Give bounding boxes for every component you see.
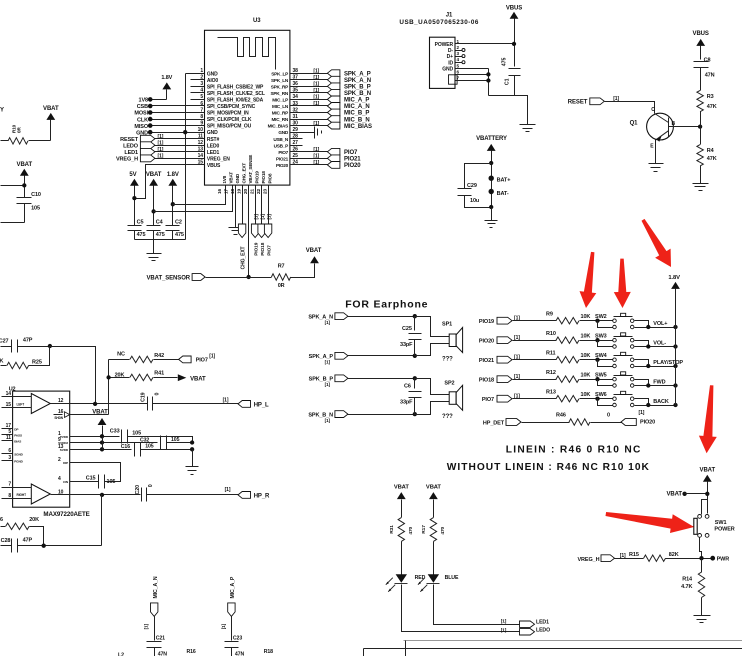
svg-text:GND: GND [207,130,218,136]
svg-text:D-: D- [448,48,454,54]
junction VBAT rail [151,209,155,213]
svg-text:VBUS: VBUS [693,31,709,37]
svg-text:PIO18: PIO18 [260,242,266,256]
svg-text:MIC_A_P: MIC_A_P [344,98,369,104]
svg-text:CHG_EXT: CHG_EXT [241,163,246,184]
capacitor C19 0 [140,392,160,410]
wire C27/R25 to HP_L node [50,347,96,404]
svg-text:10K: 10K [581,314,591,320]
svg-text:26: 26 [0,517,3,523]
switch SW2 [595,313,678,329]
svg-text:SP1: SP1 [442,322,452,328]
wire 1.8V rail to U3 pin16 [173,186,226,205]
wire feedback to HP_R node [101,495,103,546]
svg-text:???: ??? [442,356,453,362]
input ports RESET LED0 LED1 VREG_H [116,134,205,163]
svg-text:SHDN: SHDN [54,416,63,420]
svg-text:1.8V: 1.8V [668,275,680,281]
svg-text:SPK_LN: SPK_LN [271,78,289,83]
svg-text:R41: R41 [154,371,164,377]
port PIO20 button row [479,335,557,344]
svg-text:R12: R12 [546,370,556,376]
svg-text:R15: R15 [629,552,639,558]
svg-text:R7: R7 [278,263,285,269]
svg-text:SPI_CLK/PCM_CLK: SPI_CLK/PCM_CLK [207,117,252,123]
svg-text:1.8V: 1.8V [161,75,172,81]
port HP_L [153,398,270,409]
svg-text:10K: 10K [581,353,591,359]
svg-text:[1]: [1] [325,382,331,387]
svg-text:[1]: [1] [144,623,149,629]
junction GND pin10 [183,130,187,134]
svg-text:SPK_RP: SPK_RP [271,84,288,89]
transistor Q1 [630,107,676,150]
power VBAT arrow at PVDD [92,410,108,437]
svg-text:1V8: 1V8 [139,98,149,104]
svg-text:FWD: FWD [653,380,665,386]
port PIO7 at R42 [179,354,216,364]
svg-text:Q1: Q1 [630,120,639,126]
svg-text:MIC_RP: MIC_RP [272,111,288,116]
svg-text:MIC_LP: MIC_LP [272,98,288,103]
svg-text:RST#: RST# [207,137,220,143]
connector J1 USB_UA0507065230-06 [399,13,479,89]
svg-text:[1]: [1] [313,147,319,153]
svg-text:C21: C21 [156,636,165,642]
svg-text:C19: C19 [140,392,146,402]
svg-text:RIGHT: RIGHT [17,493,27,497]
svg-text:LEDO: LEDO [536,627,550,633]
svg-text:C6: C6 [404,384,411,390]
svg-text:PIO19: PIO19 [254,171,259,184]
power 1.8V arrow button bus [668,275,680,406]
svg-text:VBAT: VBAT [306,248,322,254]
svg-text:WITHOUT LINEIN : R46 NC R10 10: WITHOUT LINEIN : R46 NC R10 10K [447,462,650,473]
power VBAT arrow at R7 [291,248,322,278]
resistor R25 [0,347,49,369]
capacitor C5 475 [128,220,146,240]
wire U2 pin13 row [70,449,132,451]
power VBUS arrow at J1 [506,6,522,67]
svg-text:[1]: [1] [313,68,319,74]
port LED0 [501,627,550,635]
svg-text:PASS: PASS [14,433,22,437]
junction PVDD [100,434,104,438]
svg-text:PIO7: PIO7 [482,397,494,403]
switch SW5 [595,372,678,388]
port VREG_H [577,553,643,563]
svg-text:VOL-: VOL- [653,341,666,347]
svg-text:PIO7: PIO7 [278,150,288,155]
wire VBAT rail to U3 pin17 [154,186,233,212]
svg-text:105: 105 [132,430,141,436]
port HP_DET row [483,419,570,427]
svg-text:LED1: LED1 [124,150,138,156]
svg-text:CLK: CLK [137,117,148,123]
svg-text:VREG_H: VREG_H [577,557,599,563]
svg-text:C1: C1 [504,78,510,85]
port HP_R [147,487,271,499]
svg-text:470: 470 [440,526,446,534]
svg-text:SPK_B_N: SPK_B_N [344,91,371,97]
svg-text:MIC_RN: MIC_RN [272,117,289,122]
svg-text:0R: 0R [278,283,285,289]
svg-text:HP_R: HP_R [254,493,270,499]
svg-text:PIO21: PIO21 [479,358,494,364]
svg-text:ID: ID [448,60,453,66]
svg-text:20K: 20K [0,358,4,364]
resistor R9 10K [546,311,598,324]
junction R41/R42 [106,375,110,379]
port MIC_A_P [221,576,236,640]
wire GND net vertical [185,74,187,240]
port MIC_A_N [144,576,159,640]
U2 left pins [2,391,24,499]
svg-text:[1]: [1] [260,214,265,220]
LED red D? [386,574,426,592]
svg-text:VBAT: VBAT [146,172,162,178]
power 1.8V arrow near U3 [161,75,172,100]
svg-text:82K: 82K [669,552,679,558]
svg-text:LEFT: LEFT [17,402,25,406]
power VBAT arrow (top left) [43,106,59,141]
svg-text:???: ??? [442,414,453,420]
wire U2 pin16 SHDN [70,414,109,416]
svg-text:12: 12 [58,398,64,404]
svg-text:[1]: [1] [209,354,215,360]
resistor R42 NC to PIO7 [109,351,179,362]
svg-text:10: 10 [58,490,64,496]
resistor R15 82K [629,552,711,561]
svg-text:Y: Y [0,108,4,114]
capacitor C33 105 [110,428,193,443]
svg-text:R10: R10 [546,331,556,337]
svg-text:1: 1 [58,431,61,437]
junction base node [698,124,702,128]
svg-text:POWER: POWER [435,42,454,48]
annotation red arrow 1 [580,252,597,308]
svg-text:SPK_LP: SPK_LP [271,71,288,76]
U2 op-amp triangle RIGHT [13,484,70,504]
junction C27/R25 [48,344,52,348]
svg-text:33pF: 33pF [400,342,413,348]
svg-text:[1]: [1] [158,154,164,160]
svg-text:R46: R46 [556,412,566,418]
svg-text:SPI_MISO/PCM_OU: SPI_MISO/PCM_OU [207,124,252,130]
svg-text:VBAT: VBAT [92,410,108,416]
svg-text:MIC_A_N: MIC_A_N [344,104,370,110]
svg-text:SPK_B_P: SPK_B_P [344,85,371,91]
svg-text:47N: 47N [705,72,715,78]
svg-text:VBAT_SENSE: VBAT_SENSE [248,155,253,184]
svg-text:20K: 20K [29,517,39,523]
svg-text:13: 13 [58,444,64,450]
svg-text:[1]: [1] [501,618,507,624]
svg-text:C4: C4 [156,220,164,226]
svg-text:POWER: POWER [714,526,734,532]
svg-text:MISO: MISO [134,124,148,130]
U2 right internal labels [54,412,70,484]
svg-text:475: 475 [156,232,165,238]
svg-text:0: 0 [148,484,154,487]
resistor R12 10K [546,370,598,383]
wire U2 pin10 HP_R out [70,494,141,496]
capacitor C29 10u [458,161,494,208]
svg-text:16: 16 [217,188,223,194]
ground below R4 [693,183,709,185]
U3 left pins 1-15 with numbers and names [198,68,299,169]
port PIO7 button row [482,394,557,403]
node BAT- [489,189,509,197]
annotation red arrow 4 [699,385,717,453]
svg-text:[1]: [1] [158,140,164,146]
svg-text:105: 105 [145,443,154,449]
svg-text:C: C [651,107,655,113]
svg-text:C10: C10 [31,192,41,198]
svg-text:R31: R31 [389,525,395,534]
svg-text:SPK_A_P: SPK_A_P [344,71,371,77]
wire SHDN pull network [108,360,110,415]
svg-text:J1: J1 [446,13,453,19]
svg-text:[1]: [1] [221,623,226,629]
svg-text:SPK_RN: SPK_RN [270,91,288,96]
port VBAT_SENSOR [147,274,272,282]
svg-text:LINEIN : R46 0 R10 NC: LINEIN : R46 0 R10 NC [506,444,642,455]
svg-text:C2: C2 [175,220,182,226]
U2 op-amp triangle LEFT [13,394,70,414]
svg-text:[1]: [1] [158,147,164,153]
svg-text:SPI_CSB/PCM_SYNC: SPI_CSB/PCM_SYNC [207,104,256,110]
svg-text:U3: U3 [253,18,261,24]
svg-text:C25: C25 [402,326,412,332]
capacitor C28 47P [1,537,102,552]
svg-text:BAT+: BAT+ [497,178,511,184]
port PIO20 at R46 [621,410,655,426]
ground below C1 [515,96,536,132]
svg-text:10K: 10K [581,372,591,378]
svg-text:[1]: [1] [313,154,319,160]
node BAT+ [489,176,511,184]
U3 USB_N USB_P stubs [291,139,303,146]
capacitor C2 475 [166,220,184,240]
svg-text:R11: R11 [546,350,556,356]
capacitor C16 105 [121,443,193,457]
svg-text:PWR: PWR [717,557,730,563]
svg-text:C15: C15 [86,476,96,482]
resistor R3 47K [697,90,717,144]
U3 pin stubs rows 1-4 [186,74,205,93]
svg-text:SPK_A_N: SPK_A_N [344,78,371,84]
svg-text:47N: 47N [235,651,245,656]
svg-text:LED0: LED0 [207,143,220,149]
resistor R10 10K [546,331,598,344]
resistor R14 4.7K [681,559,705,616]
wire VBAT_SENSE pin20 down to sensor row [248,186,250,278]
wire U2 pin12 HP_L out [70,403,148,405]
port RESET to Q1 [568,96,655,113]
svg-text:VBAT: VBAT [394,484,410,490]
svg-text:[1]: [1] [313,82,319,88]
power 5V arrow [129,172,138,226]
svg-text:MIC_BIAS: MIC_BIAS [344,124,372,130]
svg-text:[1]: [1] [313,88,319,94]
svg-text:2: 2 [58,457,61,463]
svg-text:5V: 5V [129,172,136,178]
svg-text:47K: 47K [707,104,717,110]
svg-text:PIO20: PIO20 [479,339,494,345]
svg-text:R14: R14 [682,576,693,582]
svg-text:R16: R16 [187,649,196,655]
svg-text:CIN: CIN [63,480,69,484]
svg-text:R25: R25 [32,360,42,366]
svg-text:RESET: RESET [568,100,588,106]
svg-text:PIO21: PIO21 [276,156,289,161]
junction VBAT_SENSE [246,275,250,279]
svg-text:[1]: [1] [266,214,271,220]
resistor R11 10K [546,350,598,363]
svg-text:VBAT: VBAT [700,468,716,474]
U2 right pin numbers [58,398,64,495]
ports SPK_A_N SPK_A_P SPK_B_P SPK_B_N [308,313,417,423]
svg-text:R3: R3 [707,94,714,100]
svg-text:1.8V: 1.8V [167,172,179,178]
power VBAT arrow at R31 [394,484,410,517]
resistor R13 10K [546,389,598,402]
svg-text:R13: R13 [546,389,556,395]
svg-text:SPI_FLASH_IO0/E2_SDA: SPI_FLASH_IO0/E2_SDA [207,98,264,104]
U3 right SPK/MIC ports [291,68,372,129]
svg-text:MAX97220AETE: MAX97220AETE [43,511,89,518]
capacitor C20 0 [135,484,154,501]
svg-text:VBAT_SENSOR: VBAT_SENSOR [147,275,191,281]
svg-text:[1]: [1] [158,134,164,140]
svg-text:R4: R4 [707,148,715,154]
svg-text:MIC_A_N: MIC_A_N [153,576,159,598]
svg-text:LEDO: LEDO [123,143,139,149]
svg-text:R18: R18 [264,649,273,655]
svg-text:[1]: [1] [325,320,331,325]
port LED1 [501,618,549,627]
svg-text:PIO7: PIO7 [196,358,208,364]
svg-text:MIC_LN: MIC_LN [272,104,289,109]
svg-text:DP: DP [14,427,18,431]
ground below R14 [694,615,711,617]
switch SW4 [595,352,683,368]
svg-text:LED1: LED1 [536,619,549,625]
capacitor C4 475 [147,220,165,240]
svg-text:[1]: [1] [225,487,231,493]
svg-text:21: 21 [250,188,256,194]
svg-text:PIO20: PIO20 [276,163,289,168]
speaker SP2 [415,379,463,421]
svg-text:BAT-: BAT- [497,191,509,197]
power VBAT arrow at R17 [426,484,442,517]
svg-text:23: 23 [263,188,269,194]
junction 1.8V rail [171,202,175,206]
svg-text:[1]: [1] [313,95,319,101]
svg-text:VOL+: VOL+ [653,321,667,327]
capacitor C25 33pF [400,317,422,356]
svg-text:DIP: DIP [63,461,68,465]
svg-text:[1]: [1] [313,160,319,166]
svg-text:PIO18: PIO18 [261,171,266,184]
wire VBAT tie vertical [102,437,104,450]
svg-text:VBATTERY: VBATTERY [476,136,507,142]
junctions cap bus [190,440,194,444]
capacitor C21 47N [147,636,168,656]
svg-text:HP_DET: HP_DET [483,420,505,426]
annotation red arrow 2 [614,259,631,308]
node PWR [710,556,729,563]
svg-text:47K: 47K [707,156,717,162]
svg-text:[1]: [1] [313,121,319,127]
svg-text:SPI_FLASH_CSB/E2_WP: SPI_FLASH_CSB/E2_WP [207,84,264,90]
svg-text:SP2: SP2 [444,381,454,387]
svg-text:VREG_EN: VREG_EN [207,156,230,162]
svg-text:475: 475 [502,58,508,67]
wires nets 1V8 CSB MOSI CLK MISO GND to U3 [134,97,204,136]
U3 bottom pins 16-23 rotated numbers and names [217,155,272,194]
wire VBUS pin15 to 5V rail [135,165,205,199]
svg-text:VBAT: VBAT [667,491,683,497]
junction HP_L feedback [93,402,97,406]
power VBAT arrow (right) at R41 [178,374,206,382]
svg-text:GND: GND [442,66,453,72]
svg-text:VBAT: VBAT [17,162,33,168]
svg-text:MIC_B_N: MIC_B_N [344,117,370,123]
node VBAT tie [667,491,710,497]
svg-text:C5: C5 [137,220,144,226]
junction 20K/C28 [42,544,46,548]
svg-text:16: 16 [58,409,64,415]
capacitor C32 105 [140,436,193,450]
svg-text:SGND: SGND [14,452,23,456]
resistor R41 20K to VBAT [109,371,178,381]
capacitor C1 475 [502,58,521,96]
ground at U3 pin18 [229,186,243,235]
svg-text:C29: C29 [467,183,477,189]
wire J1 gnd pins to C1 bottom [463,69,515,96]
svg-text:VBAT: VBAT [190,376,206,382]
svg-text:PIO7: PIO7 [267,245,273,256]
svg-text:7: 7 [8,482,11,488]
wire Q1 base to R3/R4 [669,126,701,128]
svg-text:VBAT: VBAT [43,106,59,112]
resistor R31 470 [389,518,414,575]
svg-text:HP_L: HP_L [254,402,269,408]
capacitor C10 105 [17,192,41,222]
svg-text:470: 470 [408,526,414,534]
svg-text:475: 475 [175,232,184,238]
svg-text:C8: C8 [704,57,711,63]
svg-text:D+: D+ [447,54,454,60]
svg-text:0: 0 [607,412,610,418]
junction HP_R feedback [100,493,104,497]
svg-text:VBAT: VBAT [426,484,442,490]
J1 pin names and numbers [435,39,463,81]
svg-text:PGND: PGND [14,459,23,463]
svg-text:RESET: RESET [120,137,139,143]
svg-text:MIC_BIAS: MIC_BIAS [268,124,289,129]
svg-text:PVDD: PVDD [60,435,69,439]
resistor R17 470 [421,518,446,575]
svg-text:[1]: [1] [223,398,229,404]
svg-text:C23: C23 [233,636,242,642]
svg-text:PIO19: PIO19 [479,319,494,325]
svg-text:R42: R42 [154,353,164,359]
power VBATTERY arrow [476,136,507,208]
switch SW3 [595,333,678,349]
